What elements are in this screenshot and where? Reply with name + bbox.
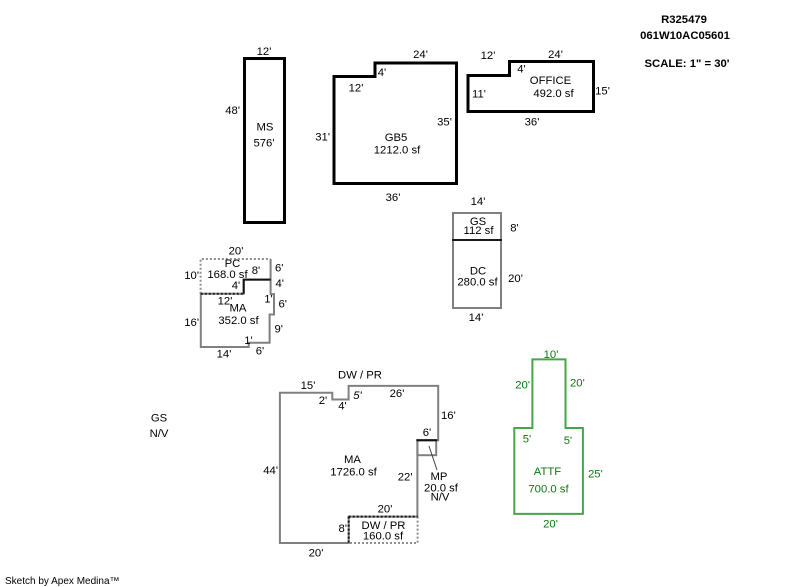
svg-text:1212.0 sf: 1212.0 sf bbox=[374, 145, 421, 157]
building GS/DC outline bbox=[452, 213, 502, 308]
note GS N/V bbox=[150, 413, 169, 441]
shared PC/MA step black bbox=[244, 280, 271, 294]
svg-text:12': 12' bbox=[481, 50, 496, 62]
svg-text:8': 8' bbox=[252, 265, 260, 277]
svg-text:DW / PR: DW / PR bbox=[338, 370, 382, 382]
svg-text:GB5: GB5 bbox=[385, 132, 408, 144]
svg-text:Sketch by Apex Medina™: Sketch by Apex Medina™ bbox=[5, 576, 120, 587]
svg-text:061W10AC05601: 061W10AC05601 bbox=[640, 30, 730, 42]
svg-text:1': 1' bbox=[244, 335, 252, 347]
svg-text:20': 20' bbox=[378, 504, 393, 516]
svg-text:5': 5' bbox=[523, 434, 531, 446]
svg-text:280.0 sf: 280.0 sf bbox=[457, 277, 498, 289]
svg-text:14': 14' bbox=[469, 312, 484, 324]
svg-text:14': 14' bbox=[471, 196, 486, 208]
svg-text:8': 8' bbox=[510, 223, 518, 235]
svg-text:ATTF: ATTF bbox=[534, 466, 561, 478]
svg-text:10': 10' bbox=[544, 349, 559, 361]
svg-text:4': 4' bbox=[232, 280, 240, 292]
svg-text:15': 15' bbox=[595, 86, 610, 98]
svg-text:44': 44' bbox=[263, 465, 278, 477]
svg-text:168.0 sf: 168.0 sf bbox=[207, 269, 248, 281]
svg-text:5': 5' bbox=[353, 390, 362, 402]
divider GS/DC bbox=[452, 239, 502, 241]
MP box outline bbox=[416, 440, 437, 470]
svg-text:4': 4' bbox=[378, 67, 386, 79]
svg-text:MS: MS bbox=[257, 122, 274, 134]
svg-text:5': 5' bbox=[564, 435, 572, 447]
svg-text:20': 20' bbox=[229, 246, 244, 258]
svg-text:31': 31' bbox=[315, 132, 330, 144]
outbuilding ATTF green outline bbox=[514, 359, 583, 514]
svg-text:12': 12' bbox=[257, 46, 272, 58]
svg-text:15': 15' bbox=[301, 380, 316, 392]
svg-text:6': 6' bbox=[279, 299, 287, 311]
building OFFICE outline bbox=[468, 62, 594, 112]
svg-text:6': 6' bbox=[256, 346, 264, 358]
svg-text:20': 20' bbox=[309, 548, 324, 560]
svg-text:576': 576' bbox=[253, 138, 274, 150]
svg-text:20': 20' bbox=[570, 378, 585, 390]
porch top dashed dark bbox=[349, 516, 418, 518]
porch PC dotted outline bbox=[201, 259, 271, 294]
svg-text:352.0 sf: 352.0 sf bbox=[218, 315, 259, 327]
svg-text:SCALE: 1" = 30': SCALE: 1" = 30' bbox=[645, 58, 730, 70]
svg-text:6': 6' bbox=[423, 427, 431, 439]
building GB5 outline bbox=[334, 63, 457, 184]
svg-text:14': 14' bbox=[217, 349, 232, 361]
svg-text:20': 20' bbox=[508, 273, 523, 285]
MP pointer line bbox=[429, 446, 437, 470]
svg-text:GS: GS bbox=[151, 413, 168, 425]
porch DW/PR dotted outline bbox=[349, 517, 418, 543]
svg-text:25': 25' bbox=[588, 469, 603, 481]
svg-text:26': 26' bbox=[390, 388, 405, 400]
svg-text:36': 36' bbox=[525, 117, 540, 129]
svg-text:R325479: R325479 bbox=[661, 14, 707, 26]
addition MA 352 outline bbox=[201, 280, 274, 347]
svg-text:6': 6' bbox=[275, 263, 283, 275]
svg-text:1726.0 sf: 1726.0 sf bbox=[330, 467, 377, 479]
svg-text:20': 20' bbox=[515, 380, 530, 392]
svg-text:24': 24' bbox=[413, 49, 428, 61]
svg-text:16': 16' bbox=[441, 410, 456, 422]
svg-text:20': 20' bbox=[543, 519, 558, 531]
svg-text:35': 35' bbox=[437, 117, 452, 129]
svg-text:N/V: N/V bbox=[150, 428, 169, 440]
svg-text:12': 12' bbox=[349, 83, 364, 95]
svg-text:48': 48' bbox=[225, 105, 240, 117]
svg-text:MA: MA bbox=[344, 454, 361, 466]
svg-text:2': 2' bbox=[319, 395, 327, 407]
MP box top edge dark bbox=[416, 439, 437, 441]
svg-text:160.0 sf: 160.0 sf bbox=[363, 531, 404, 543]
svg-text:8': 8' bbox=[339, 523, 347, 535]
svg-text:22': 22' bbox=[398, 472, 413, 484]
svg-text:MA: MA bbox=[230, 303, 247, 315]
svg-text:24': 24' bbox=[548, 49, 563, 61]
svg-text:16': 16' bbox=[184, 317, 199, 329]
main dwelling MA 1726 outline bbox=[280, 386, 438, 543]
svg-text:MP: MP bbox=[431, 471, 448, 483]
PC bottom dashed over MA top bbox=[201, 293, 244, 295]
svg-text:1': 1' bbox=[264, 294, 272, 306]
svg-text:492.0 sf: 492.0 sf bbox=[533, 88, 574, 100]
svg-text:4': 4' bbox=[276, 278, 284, 290]
porch left dashed dark bbox=[348, 517, 350, 543]
svg-text:36': 36' bbox=[386, 192, 401, 204]
svg-text:4': 4' bbox=[338, 401, 346, 413]
svg-text:700.0 sf: 700.0 sf bbox=[528, 484, 569, 496]
svg-text:OFFICE: OFFICE bbox=[530, 75, 572, 87]
svg-text:10': 10' bbox=[184, 270, 199, 282]
building MS outline bbox=[245, 59, 285, 223]
svg-text:9': 9' bbox=[275, 324, 283, 336]
svg-text:112 sf: 112 sf bbox=[464, 225, 495, 237]
PC right 6' edge bbox=[270, 259, 272, 280]
svg-text:4': 4' bbox=[517, 64, 525, 76]
svg-text:11': 11' bbox=[472, 89, 486, 101]
svg-text:N/V: N/V bbox=[431, 491, 450, 503]
